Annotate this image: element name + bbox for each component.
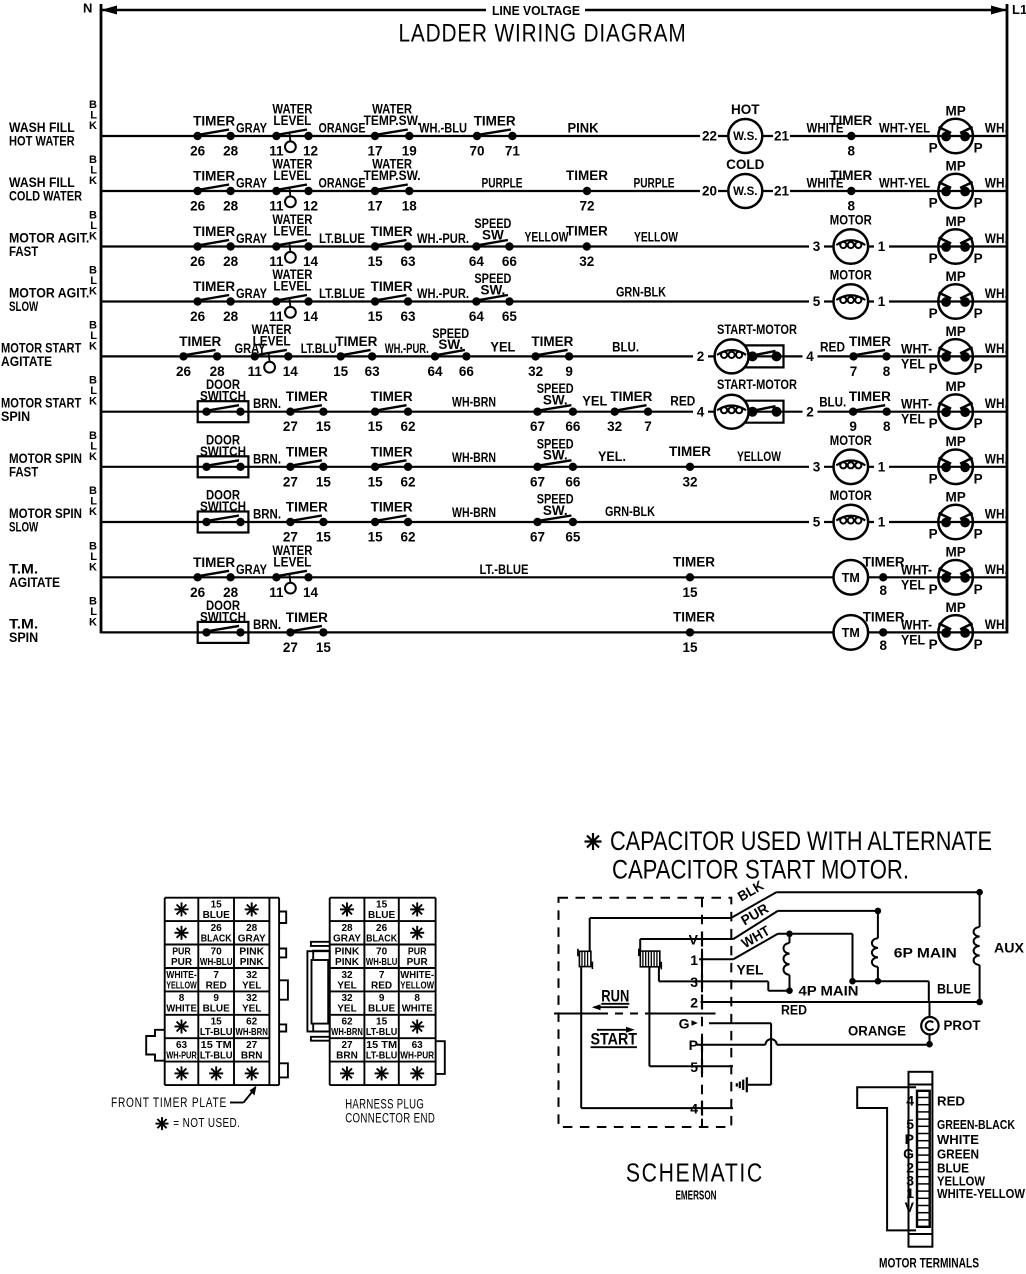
- svg-text:WH-BRN: WH-BRN: [452, 395, 496, 410]
- svg-text:HOT: HOT: [731, 102, 760, 117]
- svg-text:P: P: [689, 1037, 698, 1053]
- svg-text:15 TM: 15 TM: [366, 1040, 397, 1051]
- svg-text:WHT-YEL: WHT-YEL: [879, 121, 930, 136]
- svg-text:N: N: [83, 1, 92, 16]
- svg-text:9: 9: [213, 993, 219, 1004]
- svg-text:K: K: [89, 506, 97, 518]
- svg-text:TM: TM: [842, 626, 860, 640]
- svg-text:PUR: PUR: [407, 957, 429, 968]
- svg-text:WH.-BLU: WH.-BLU: [419, 121, 467, 136]
- svg-text:P: P: [974, 582, 983, 597]
- svg-text:WH.: WH.: [985, 176, 1008, 191]
- svg-text:WHITE-: WHITE-: [400, 970, 434, 981]
- svg-text:TIMER: TIMER: [673, 554, 715, 569]
- svg-text:YEL: YEL: [337, 1004, 356, 1015]
- svg-text:WH-PUR: WH-PUR: [400, 1051, 434, 1062]
- svg-text:WH-BRN: WH-BRN: [236, 1027, 268, 1038]
- svg-text:TIMER: TIMER: [179, 334, 221, 349]
- svg-text:COLD WATER: COLD WATER: [9, 189, 82, 204]
- svg-text:START: START: [591, 1030, 638, 1049]
- svg-text:P: P: [929, 196, 938, 211]
- svg-text:MP: MP: [945, 489, 965, 504]
- svg-text:K: K: [89, 396, 97, 408]
- svg-text:BLUE: BLUE: [937, 1162, 969, 1176]
- svg-text:28: 28: [223, 199, 239, 214]
- svg-text:TIMER: TIMER: [830, 168, 872, 183]
- svg-text:8: 8: [179, 993, 185, 1004]
- svg-text:TIMER: TIMER: [371, 389, 413, 404]
- svg-text:WH.-PUR.: WH.-PUR.: [417, 286, 469, 301]
- svg-text:4: 4: [806, 349, 814, 364]
- svg-text:MP: MP: [945, 324, 965, 339]
- svg-text:K: K: [89, 231, 97, 243]
- svg-text:PURPLE: PURPLE: [634, 176, 675, 191]
- svg-text:WH-BRN: WH-BRN: [452, 450, 496, 465]
- svg-text:MP: MP: [945, 158, 965, 173]
- svg-text:32: 32: [607, 419, 622, 434]
- svg-text:PINK: PINK: [335, 957, 360, 968]
- svg-text:P: P: [974, 141, 983, 156]
- svg-text:TIMER: TIMER: [286, 444, 328, 459]
- svg-text:PURPLE: PURPLE: [482, 176, 523, 191]
- svg-text:BRN: BRN: [336, 1051, 358, 1062]
- svg-text:WHT-YEL: WHT-YEL: [879, 176, 930, 191]
- svg-text:YEL: YEL: [582, 394, 607, 409]
- svg-text:21: 21: [774, 184, 790, 199]
- svg-text:GRAY: GRAY: [238, 933, 266, 944]
- svg-text:LT.BLUE: LT.BLUE: [319, 231, 365, 246]
- svg-text:BLUE: BLUE: [368, 1004, 396, 1015]
- svg-text:CONNECTOR END: CONNECTOR END: [345, 1111, 435, 1126]
- svg-text:YEL: YEL: [901, 412, 925, 427]
- svg-text:15: 15: [368, 419, 384, 434]
- svg-text:TIMER: TIMER: [566, 168, 608, 183]
- svg-text:BLUE: BLUE: [203, 910, 231, 921]
- svg-text:WH-BRN: WH-BRN: [452, 505, 496, 520]
- svg-text:2: 2: [697, 349, 705, 364]
- svg-text:WH.: WH.: [985, 121, 1008, 136]
- svg-text:28: 28: [341, 923, 353, 934]
- svg-text:7: 7: [644, 419, 652, 434]
- svg-text:15: 15: [211, 900, 223, 911]
- svg-text:GRAY: GRAY: [236, 121, 267, 136]
- svg-text:SWITCH: SWITCH: [200, 499, 246, 514]
- svg-text:W.S.: W.S.: [733, 186, 757, 198]
- svg-text:BLACK: BLACK: [366, 933, 398, 944]
- svg-text:15: 15: [316, 530, 332, 545]
- svg-text:1: 1: [878, 460, 886, 475]
- svg-text:P: P: [929, 416, 938, 431]
- svg-text:15: 15: [211, 1017, 223, 1028]
- svg-text:22: 22: [702, 129, 717, 144]
- svg-text:70: 70: [469, 144, 484, 159]
- svg-text:MOTOR TERMINALS: MOTOR TERMINALS: [879, 1256, 979, 1271]
- svg-text:MP: MP: [945, 600, 965, 615]
- svg-text:8: 8: [848, 144, 856, 159]
- svg-text:GRAY: GRAY: [236, 286, 267, 301]
- svg-text:BLUE: BLUE: [368, 910, 396, 921]
- svg-text:7: 7: [850, 364, 858, 379]
- svg-text:GRN-BLK: GRN-BLK: [605, 504, 655, 519]
- svg-text:62: 62: [400, 474, 415, 489]
- svg-text:FAST: FAST: [9, 464, 39, 479]
- svg-text:28: 28: [223, 309, 239, 324]
- svg-text:YEL.: YEL.: [598, 449, 626, 464]
- svg-text:YEL: YEL: [242, 980, 261, 991]
- svg-text:TIMER: TIMER: [193, 279, 235, 294]
- svg-text:HOT WATER: HOT WATER: [9, 134, 75, 149]
- svg-text:26: 26: [211, 923, 223, 934]
- svg-text:TIMER: TIMER: [863, 609, 905, 624]
- svg-text:LEVEL: LEVEL: [273, 168, 311, 183]
- svg-text:WH.: WH.: [985, 341, 1008, 356]
- svg-text:TM: TM: [842, 571, 860, 585]
- svg-text:65: 65: [502, 309, 518, 324]
- svg-text:LADDER WIRING DIAGRAM: LADDER WIRING DIAGRAM: [399, 20, 687, 48]
- svg-text:62: 62: [246, 1017, 258, 1028]
- svg-text:TIMER: TIMER: [286, 500, 328, 515]
- svg-text:27: 27: [341, 1040, 353, 1051]
- svg-text:SLOW: SLOW: [9, 520, 38, 535]
- svg-text:RED: RED: [670, 394, 695, 409]
- svg-text:P: P: [974, 527, 983, 542]
- svg-text:BRN: BRN: [241, 1051, 263, 1062]
- svg-text:GRAY: GRAY: [236, 562, 267, 577]
- svg-text:P: P: [974, 251, 983, 266]
- svg-text:TIMER: TIMER: [669, 444, 711, 459]
- svg-text:P: P: [929, 141, 938, 156]
- svg-text:TIMER: TIMER: [193, 114, 235, 129]
- svg-text:L1: L1: [1012, 2, 1026, 17]
- svg-text:YEL: YEL: [901, 356, 925, 371]
- svg-text:SW: SW: [482, 227, 504, 242]
- svg-text:SPIN: SPIN: [1, 409, 30, 424]
- svg-text:WHITE: WHITE: [166, 1004, 197, 1015]
- svg-text:K: K: [89, 561, 97, 573]
- svg-text:BLUE: BLUE: [203, 1004, 231, 1015]
- svg-text:67: 67: [530, 474, 545, 489]
- svg-text:63: 63: [400, 309, 416, 324]
- svg-text:RED: RED: [206, 980, 227, 991]
- svg-text:P: P: [929, 527, 938, 542]
- svg-text:1: 1: [878, 239, 886, 254]
- svg-text:YELLOW: YELLOW: [737, 449, 781, 464]
- svg-text:WHT-: WHT-: [901, 341, 932, 356]
- svg-text:9: 9: [565, 364, 573, 379]
- svg-text:WH.-PUR.: WH.-PUR.: [417, 231, 469, 246]
- svg-text:PUR: PUR: [172, 946, 191, 957]
- svg-text:P: P: [929, 637, 938, 652]
- svg-text:= NOT USED.: = NOT USED.: [173, 1116, 240, 1130]
- svg-text:W.S.: W.S.: [733, 131, 757, 143]
- svg-text:LEVEL: LEVEL: [273, 279, 311, 294]
- svg-text:8: 8: [879, 638, 887, 653]
- svg-text:YEL: YEL: [490, 339, 515, 354]
- svg-text:LEVEL: LEVEL: [273, 113, 311, 128]
- svg-text:8: 8: [883, 364, 891, 379]
- svg-text:4P MAIN: 4P MAIN: [799, 984, 859, 999]
- svg-text:27: 27: [283, 419, 298, 434]
- svg-text:63: 63: [400, 254, 416, 269]
- svg-text:GRAY: GRAY: [236, 176, 267, 191]
- svg-text:TIMER: TIMER: [286, 610, 328, 625]
- svg-text:TIMER: TIMER: [830, 113, 872, 128]
- svg-text:1: 1: [878, 294, 886, 309]
- svg-text:11: 11: [248, 364, 263, 379]
- svg-text:65: 65: [565, 530, 581, 545]
- svg-text:21: 21: [774, 129, 790, 144]
- svg-text:WH.: WH.: [985, 231, 1008, 246]
- svg-text:BLU.: BLU.: [612, 339, 639, 354]
- svg-text:WH.: WH.: [985, 562, 1008, 577]
- svg-text:8: 8: [848, 199, 856, 214]
- svg-text:32: 32: [246, 970, 258, 981]
- svg-text:4: 4: [906, 1093, 914, 1109]
- svg-text:AUX: AUX: [994, 941, 1024, 956]
- svg-text:PROT: PROT: [944, 1018, 982, 1033]
- svg-text:YEL: YEL: [737, 963, 764, 978]
- svg-text:GREEN: GREEN: [937, 1148, 979, 1162]
- svg-text:66: 66: [502, 254, 518, 269]
- svg-text:15: 15: [368, 530, 384, 545]
- svg-text:LEVEL: LEVEL: [273, 224, 311, 239]
- svg-text:ORANGE: ORANGE: [848, 1024, 906, 1039]
- svg-text:8: 8: [879, 583, 887, 598]
- svg-text:18: 18: [402, 199, 418, 214]
- svg-text:15: 15: [682, 640, 698, 655]
- svg-text:TIMER: TIMER: [371, 500, 413, 515]
- svg-text:P: P: [974, 637, 983, 652]
- svg-text:15: 15: [368, 309, 384, 324]
- svg-text:LT-BLU: LT-BLU: [366, 1051, 397, 1062]
- svg-text:WHT-: WHT-: [901, 397, 932, 412]
- svg-text:71: 71: [505, 144, 521, 159]
- svg-text:8: 8: [414, 993, 420, 1004]
- svg-text:AGITATE: AGITATE: [1, 354, 52, 369]
- svg-text:LT.BLUE: LT.BLUE: [319, 286, 365, 301]
- svg-text:MOTOR: MOTOR: [830, 488, 872, 503]
- svg-text:SW.: SW.: [438, 337, 463, 352]
- svg-text:WH-BLU: WH-BLU: [366, 957, 397, 968]
- svg-text:TIMER: TIMER: [371, 279, 413, 294]
- svg-text:17: 17: [367, 199, 382, 214]
- svg-text:YELLOW: YELLOW: [525, 230, 569, 245]
- svg-text:67: 67: [530, 530, 545, 545]
- svg-text:GRN-BLK: GRN-BLK: [616, 285, 666, 300]
- svg-text:TIMER: TIMER: [335, 334, 377, 349]
- svg-text:63: 63: [365, 364, 381, 379]
- svg-text:YEL: YEL: [901, 632, 925, 647]
- svg-text:20: 20: [702, 184, 717, 199]
- svg-text:RED: RED: [371, 980, 392, 991]
- svg-text:WHITE: WHITE: [402, 1004, 433, 1015]
- svg-text:TIMER: TIMER: [566, 224, 608, 239]
- svg-text:SW.: SW.: [543, 393, 568, 408]
- svg-text:TIMER: TIMER: [371, 224, 413, 239]
- svg-text:LEVEL: LEVEL: [273, 554, 311, 569]
- svg-text:MOTOR: MOTOR: [830, 268, 872, 283]
- svg-text:LT-BLU: LT-BLU: [366, 1027, 397, 1038]
- svg-text:TIMER: TIMER: [673, 609, 715, 624]
- svg-text:RED: RED: [937, 1095, 965, 1109]
- svg-text:TIMER: TIMER: [849, 334, 891, 349]
- svg-text:G: G: [679, 1016, 690, 1032]
- svg-text:1: 1: [878, 515, 886, 530]
- svg-text:CAPACITOR START MOTOR.: CAPACITOR START MOTOR.: [612, 854, 909, 884]
- svg-text:WH.: WH.: [985, 451, 1008, 466]
- svg-text:32: 32: [246, 993, 258, 1004]
- svg-text:26: 26: [376, 923, 388, 934]
- svg-text:BLACK: BLACK: [201, 933, 233, 944]
- svg-text:FRONT TIMER PLATE: FRONT TIMER PLATE: [111, 1095, 227, 1110]
- svg-text:SWITCH: SWITCH: [200, 389, 246, 404]
- svg-text:15: 15: [682, 585, 698, 600]
- svg-text:START-MOTOR: START-MOTOR: [717, 377, 797, 392]
- svg-text:GRAY: GRAY: [333, 933, 361, 944]
- svg-text:SW.: SW.: [543, 448, 568, 463]
- svg-text:32: 32: [341, 993, 353, 1004]
- svg-text:26: 26: [190, 199, 206, 214]
- svg-text:K: K: [89, 616, 97, 628]
- svg-text:TIMER: TIMER: [193, 224, 235, 239]
- svg-text:1: 1: [690, 952, 698, 968]
- svg-text:15: 15: [316, 474, 332, 489]
- svg-text:9: 9: [379, 993, 385, 1004]
- svg-text:15: 15: [333, 364, 349, 379]
- svg-text:MOTOR: MOTOR: [830, 213, 872, 228]
- svg-text:ORANGE: ORANGE: [319, 121, 366, 136]
- svg-text:LEVEL: LEVEL: [253, 333, 291, 348]
- svg-text:ORANGE: ORANGE: [319, 176, 366, 191]
- svg-text:P: P: [974, 471, 983, 486]
- svg-text:26: 26: [190, 144, 206, 159]
- svg-text:K: K: [89, 175, 97, 187]
- svg-text:32: 32: [528, 364, 543, 379]
- svg-text:WHITE: WHITE: [937, 1133, 979, 1147]
- svg-text:2: 2: [690, 995, 698, 1011]
- svg-text:V: V: [905, 1199, 915, 1215]
- svg-text:YEL: YEL: [337, 980, 356, 991]
- svg-text:62: 62: [341, 1017, 353, 1028]
- svg-text:5: 5: [813, 515, 821, 530]
- svg-text:TEMP.SW.: TEMP.SW.: [364, 168, 421, 183]
- svg-text:WH-PUR: WH-PUR: [166, 1051, 197, 1062]
- svg-text:PUR: PUR: [408, 946, 427, 957]
- svg-text:28: 28: [246, 923, 258, 934]
- svg-text:P: P: [929, 471, 938, 486]
- svg-text:BRN.: BRN.: [253, 396, 281, 411]
- svg-text:14: 14: [283, 364, 299, 379]
- svg-text:5: 5: [813, 294, 821, 309]
- svg-text:5: 5: [906, 1116, 914, 1132]
- svg-text:MOTOR: MOTOR: [830, 433, 872, 448]
- svg-text:28: 28: [223, 254, 239, 269]
- svg-text:66: 66: [565, 474, 581, 489]
- svg-text:RED: RED: [820, 339, 845, 354]
- svg-text:SWITCH: SWITCH: [200, 444, 246, 459]
- svg-text:FAST: FAST: [9, 244, 39, 259]
- svg-text:14: 14: [303, 585, 319, 600]
- svg-text:BLU.: BLU.: [819, 395, 846, 410]
- svg-text:WH-BRN: WH-BRN: [331, 1027, 363, 1038]
- svg-text:P: P: [974, 416, 983, 431]
- svg-text:WHITE-YELLOW: WHITE-YELLOW: [937, 1187, 1025, 1201]
- svg-text:EMERSON: EMERSON: [676, 1189, 717, 1203]
- svg-text:64: 64: [427, 364, 443, 379]
- svg-text:15: 15: [316, 640, 332, 655]
- svg-text:K: K: [89, 451, 97, 463]
- svg-text:72: 72: [579, 199, 594, 214]
- svg-text:SLOW: SLOW: [9, 299, 38, 314]
- svg-text:WH.: WH.: [985, 617, 1008, 632]
- svg-text:CAPACITOR USED WITH ALTERNATE: CAPACITOR USED WITH ALTERNATE: [610, 826, 992, 856]
- svg-text:K: K: [89, 286, 97, 298]
- svg-text:TIMER: TIMER: [474, 114, 516, 129]
- svg-text:PINK: PINK: [335, 946, 361, 957]
- svg-text:TIMER: TIMER: [849, 389, 891, 404]
- svg-text:GRAY: GRAY: [236, 231, 267, 246]
- svg-text:YEL: YEL: [901, 577, 925, 592]
- svg-text:62: 62: [400, 419, 415, 434]
- svg-text:27: 27: [246, 1040, 258, 1051]
- svg-text:MP: MP: [945, 379, 965, 394]
- svg-text:MP: MP: [945, 545, 965, 560]
- svg-text:YEL: YEL: [242, 1004, 261, 1015]
- svg-text:RED: RED: [781, 1003, 807, 1018]
- svg-text:8: 8: [883, 419, 891, 434]
- svg-text:WHITE-: WHITE-: [166, 970, 197, 981]
- svg-text:32: 32: [682, 474, 697, 489]
- svg-text:70: 70: [376, 946, 388, 957]
- svg-text:15: 15: [316, 419, 332, 434]
- svg-text:TIMER: TIMER: [286, 389, 328, 404]
- svg-text:YELLOW: YELLOW: [400, 980, 434, 991]
- svg-text:MP: MP: [945, 103, 965, 118]
- svg-text:P: P: [929, 582, 938, 597]
- svg-text:67: 67: [530, 419, 545, 434]
- svg-text:26: 26: [176, 364, 192, 379]
- svg-text:BLUE: BLUE: [937, 982, 971, 997]
- svg-text:TIMER: TIMER: [863, 554, 905, 569]
- svg-text:70: 70: [211, 946, 223, 957]
- svg-text:15: 15: [376, 900, 388, 911]
- svg-text:3: 3: [813, 239, 821, 254]
- svg-text:32: 32: [579, 254, 594, 269]
- svg-text:PUR: PUR: [171, 957, 193, 968]
- svg-text:LT.BLU: LT.BLU: [301, 341, 337, 356]
- svg-text:TIMER: TIMER: [610, 389, 652, 404]
- svg-text:BRN.: BRN.: [253, 617, 281, 632]
- svg-text:26: 26: [190, 309, 206, 324]
- svg-text:SW.: SW.: [543, 503, 568, 518]
- svg-text:PINK: PINK: [568, 121, 599, 136]
- svg-text:SW.: SW.: [481, 282, 506, 297]
- svg-text:15: 15: [368, 254, 384, 269]
- svg-text:SWITCH: SWITCH: [200, 609, 246, 624]
- svg-text:63: 63: [412, 1040, 424, 1051]
- svg-text:COLD: COLD: [726, 157, 764, 172]
- svg-text:32: 32: [341, 970, 353, 981]
- svg-text:26: 26: [190, 585, 206, 600]
- svg-text:P: P: [974, 196, 983, 211]
- svg-text:63: 63: [176, 1040, 188, 1051]
- svg-text:YELLOW: YELLOW: [166, 980, 197, 991]
- svg-text:P: P: [974, 306, 983, 321]
- svg-text:WH.: WH.: [985, 396, 1008, 411]
- svg-text:RUN: RUN: [601, 987, 629, 1006]
- svg-text:TIMER: TIMER: [371, 444, 413, 459]
- svg-text:27: 27: [283, 474, 298, 489]
